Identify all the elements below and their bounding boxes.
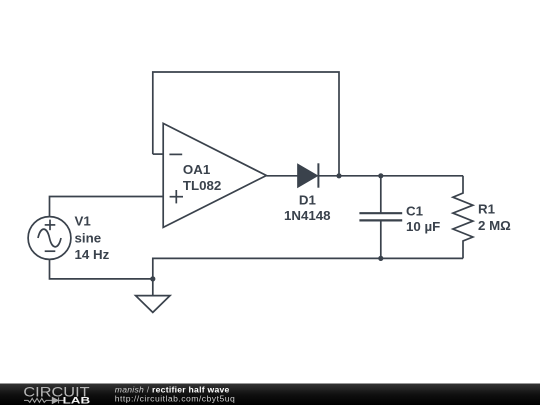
junction node ground [150, 276, 155, 281]
wire op-amp output [266, 175, 298, 177]
footer bar [0, 384, 540, 405]
wire C1 top lead [380, 176, 382, 213]
wire op-amp noninverting input from V1 top [50, 197, 164, 217]
svg-text:14 Hz: 14 Hz [75, 247, 110, 262]
svg-text:OA1: OA1 [183, 162, 211, 177]
svg-text:http://circuitlab.com/cbyt5uq: http://circuitlab.com/cbyt5uq [115, 394, 235, 404]
junction node C1 top [378, 173, 383, 178]
svg-text:TL082: TL082 [183, 178, 221, 193]
svg-text:V1: V1 [75, 213, 92, 228]
junction node C1 bottom [378, 256, 383, 261]
op-amp plus sign [170, 190, 183, 203]
svg-text:sine: sine [75, 231, 102, 246]
voltage source V1 [28, 217, 71, 260]
wire bottom rail [153, 258, 463, 295]
wire op-amp inverting input stub [153, 153, 163, 155]
svg-text:10 µF: 10 µF [406, 219, 440, 234]
svg-text:LAB: LAB [63, 396, 91, 405]
svg-text:C1: C1 [406, 203, 424, 218]
op-amp minus sign [169, 153, 182, 155]
junction node diode-feedback [336, 173, 341, 178]
logo waveform [24, 397, 64, 403]
ground [136, 296, 170, 313]
wire feedback loop [153, 72, 339, 176]
svg-text:2 MΩ: 2 MΩ [478, 218, 511, 233]
resistor R1 [453, 176, 473, 259]
svg-text:1N4148: 1N4148 [284, 208, 331, 223]
wire C1 bottom lead [380, 221, 382, 258]
diode D1 [298, 163, 318, 187]
op-amp U1 triangle [163, 123, 266, 227]
svg-text:D1: D1 [299, 193, 317, 208]
wire top rail diode to R1 [318, 175, 463, 177]
svg-text:R1: R1 [478, 201, 496, 216]
capacitor C1 [359, 213, 402, 220]
wire V1 bottom lead [50, 259, 153, 279]
